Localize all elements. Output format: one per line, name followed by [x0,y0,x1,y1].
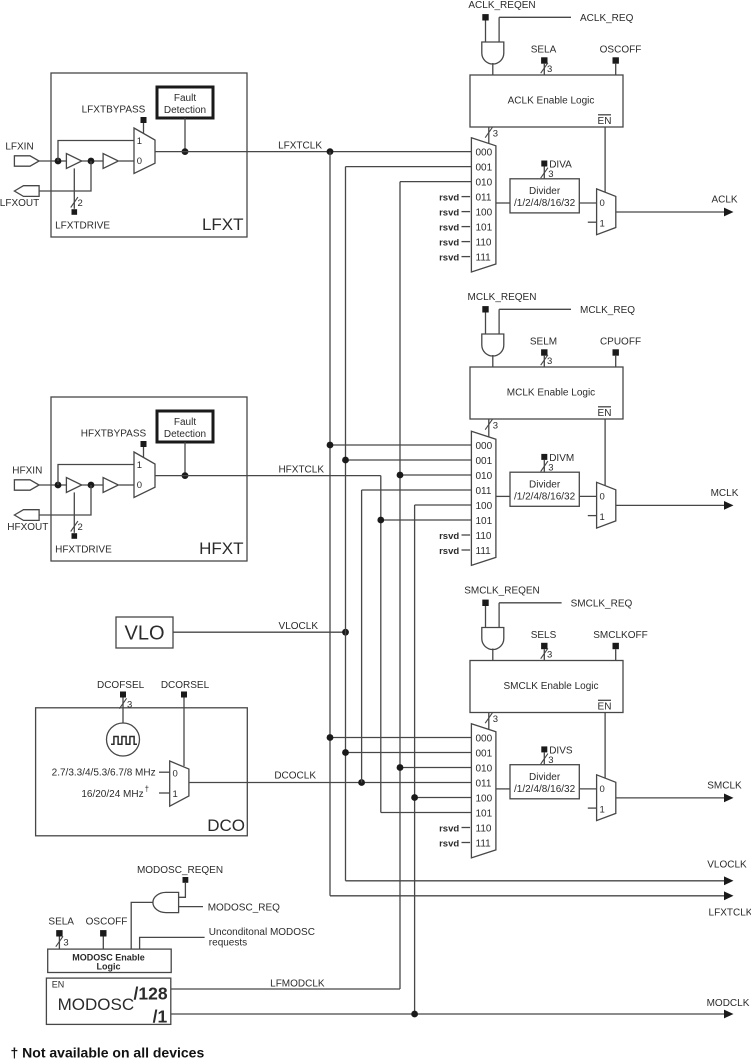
svg-text:3: 3 [493,129,498,140]
svg-text:110: 110 [476,237,492,248]
svg-text:MODCLK: MODCLK [707,998,750,1009]
svg-text:011: 011 [476,192,492,203]
svg-text:rsvd: rsvd [439,192,459,203]
svg-text:/1/2/4/8/16/32: /1/2/4/8/16/32 [514,198,576,209]
svg-text:1: 1 [600,512,605,523]
svg-text:VLOCLK: VLOCLK [707,860,747,871]
svg-text:HFXTBYPASS: HFXTBYPASS [81,429,147,440]
svg-text:SMCLK Enable Logic: SMCLK Enable Logic [503,681,598,692]
svg-text:LFXT: LFXT [202,215,244,234]
svg-text:MODOSC: MODOSC [58,995,135,1014]
svg-text:1: 1 [600,805,605,816]
svg-text:LFXTBYPASS: LFXTBYPASS [82,105,146,116]
svg-text:/1: /1 [153,1007,168,1027]
svg-text:0: 0 [600,491,605,502]
svg-text:HFXOUT: HFXOUT [7,522,48,533]
svg-text:LFXTDRIVE: LFXTDRIVE [55,220,110,231]
svg-text:SMCLK_REQEN: SMCLK_REQEN [464,586,540,597]
svg-text:rsvd: rsvd [439,252,459,263]
svg-text:011: 011 [476,778,492,789]
svg-text:LFXIN: LFXIN [5,142,33,153]
svg-text:DCORSEL: DCORSEL [161,680,210,691]
svg-text:000: 000 [476,147,493,158]
svg-text:Divider: Divider [529,479,561,490]
svg-text:111: 111 [476,252,492,263]
svg-text:ACLK_REQEN: ACLK_REQEN [468,0,535,11]
svg-text:VLOCLK: VLOCLK [279,621,319,632]
svg-text:3: 3 [548,755,553,766]
svg-text:HFXTCLK: HFXTCLK [278,464,324,475]
svg-text:010: 010 [476,471,493,482]
svg-text:1: 1 [137,136,142,147]
svg-text:110: 110 [476,531,492,542]
svg-text:3: 3 [547,356,552,367]
svg-text:MCLK_REQ: MCLK_REQ [580,305,635,316]
svg-text:3: 3 [493,714,498,725]
svg-text:0: 0 [137,156,142,167]
svg-text:OSCOFF: OSCOFF [86,917,128,928]
svg-text:rsvd: rsvd [439,838,459,849]
svg-text:VLO: VLO [124,623,164,645]
svg-text:000: 000 [476,733,493,744]
svg-text:Fault: Fault [174,93,196,104]
svg-text:rsvd: rsvd [439,207,459,218]
svg-text:001: 001 [476,162,493,173]
svg-text:111: 111 [476,546,492,557]
svg-text:rsvd: rsvd [439,222,459,233]
svg-text:EN: EN [598,408,612,419]
svg-text:HFXT: HFXT [199,539,243,558]
svg-text:EN: EN [598,702,612,713]
svg-text:SMCLK_REQ: SMCLK_REQ [571,599,633,610]
svg-text:SELM: SELM [530,337,557,348]
svg-text:0: 0 [137,480,142,491]
svg-text:EN: EN [52,980,65,990]
svg-text:Divider: Divider [529,772,561,783]
svg-text:/1/2/4/8/16/32: /1/2/4/8/16/32 [514,491,576,502]
svg-text:MCLK Enable Logic: MCLK Enable Logic [507,388,595,399]
svg-text:001: 001 [476,748,493,759]
svg-text:SMCLK: SMCLK [707,781,742,792]
svg-text:3: 3 [548,169,553,180]
svg-text:ACLK: ACLK [711,195,737,206]
svg-text:1: 1 [137,460,142,471]
svg-text:MODOSC_REQEN: MODOSC_REQEN [137,865,223,876]
svg-text:†: † [145,785,149,794]
svg-text:LFMODCLK: LFMODCLK [270,978,325,989]
svg-text:† Not available on all devices: † Not available on all devices [11,1045,205,1061]
svg-text:100: 100 [476,207,493,218]
svg-text:110: 110 [476,823,492,834]
svg-text:HFXIN: HFXIN [12,466,42,477]
svg-text:3: 3 [547,64,552,75]
svg-text:DCO: DCO [207,816,245,835]
svg-text:rsvd: rsvd [439,531,459,542]
svg-text:Detection: Detection [164,429,206,440]
svg-text:LFXOUT: LFXOUT [0,198,39,209]
svg-text:0: 0 [600,198,605,209]
svg-text:Divider: Divider [529,186,561,197]
svg-text:101: 101 [476,222,493,233]
svg-text:16/20/24 MHz: 16/20/24 MHz [81,789,143,800]
svg-text:3: 3 [547,650,552,661]
svg-text:SMCLKOFF: SMCLKOFF [593,630,647,641]
svg-text:011: 011 [476,486,492,497]
svg-text:SELS: SELS [531,630,557,641]
svg-text:rsvd: rsvd [439,237,459,248]
svg-text:requests: requests [209,938,247,949]
svg-text:DCOCLK: DCOCLK [274,771,316,782]
svg-text:100: 100 [476,501,493,512]
svg-text:CPUOFF: CPUOFF [600,337,641,348]
svg-text:2.7/3.3/4/5.3/6.7/8 MHz: 2.7/3.3/4/5.3/6.7/8 MHz [52,767,156,778]
svg-text:SELA: SELA [48,917,74,928]
svg-text:100: 100 [476,793,493,804]
svg-text:rsvd: rsvd [439,823,459,834]
svg-text:OSCOFF: OSCOFF [600,45,642,56]
svg-text:111: 111 [476,838,492,849]
svg-text:001: 001 [476,456,493,467]
svg-text:2: 2 [78,198,83,209]
svg-text:Fault: Fault [174,417,196,428]
svg-text:010: 010 [476,763,493,774]
svg-text:Logic: Logic [97,962,121,972]
svg-text:ACLK Enable Logic: ACLK Enable Logic [508,96,595,107]
svg-text:3: 3 [127,700,132,711]
svg-text:000: 000 [476,441,493,452]
svg-text:EN: EN [598,116,612,127]
svg-text:3: 3 [493,421,498,432]
svg-text:1: 1 [173,789,178,800]
svg-text:Detection: Detection [164,105,206,116]
svg-text:/1/2/4/8/16/32: /1/2/4/8/16/32 [514,784,576,795]
svg-text:Unconditonal MODOSC: Unconditonal MODOSC [209,927,315,938]
svg-text:LFXTCLK: LFXTCLK [709,907,751,918]
svg-text:MODOSC_REQ: MODOSC_REQ [208,903,280,914]
svg-text:ACLK_REQ: ACLK_REQ [580,13,634,24]
svg-text:/128: /128 [134,983,168,1003]
svg-text:MCLK: MCLK [711,488,739,499]
svg-text:HFXTDRIVE: HFXTDRIVE [55,544,112,555]
svg-text:SELA: SELA [531,45,557,56]
svg-text:0: 0 [173,769,178,780]
svg-text:DCOFSEL: DCOFSEL [97,680,145,691]
svg-text:3: 3 [548,462,553,473]
svg-text:2: 2 [78,522,83,533]
svg-text:101: 101 [476,516,493,527]
svg-text:1: 1 [600,219,605,230]
svg-text:010: 010 [476,177,493,188]
svg-text:MCLK_REQEN: MCLK_REQEN [468,292,537,303]
svg-text:rsvd: rsvd [439,546,459,557]
svg-text:LFXTCLK: LFXTCLK [278,140,322,151]
svg-text:0: 0 [600,784,605,795]
svg-text:3: 3 [63,938,68,949]
svg-text:101: 101 [476,808,493,819]
